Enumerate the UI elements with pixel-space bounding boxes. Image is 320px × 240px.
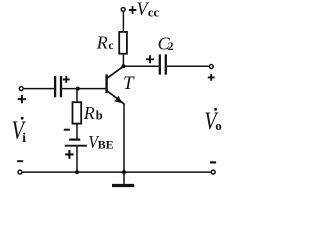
- wire Vcc to Rc: [122, 12, 124, 33]
- label plus at C2: [146, 55, 154, 63]
- svg-text:R: R: [96, 33, 108, 53]
- svg-text:cc: cc: [148, 5, 160, 19]
- wire input to C1: [24, 88, 54, 90]
- label Vo: [204, 108, 222, 135]
- terminal output bottom: [211, 170, 215, 174]
- terminal Vcc top: [121, 7, 125, 11]
- wire base junction to Rb: [76, 89, 78, 103]
- wire battery to ground rail: [76, 147, 78, 173]
- label Vi: [12, 115, 27, 145]
- wire emitter down: [123, 103, 125, 172]
- label minus at input bottom: [17, 160, 23, 162]
- resistor Rc: [119, 32, 127, 54]
- label +Vcc: [129, 0, 160, 20]
- node emitter-rail junction: [122, 170, 126, 174]
- wire C2 to output terminal: [167, 65, 209, 67]
- terminal input top: [19, 87, 23, 91]
- wire Rc to collector node: [122, 54, 124, 67]
- transistor T emitter arrow: [115, 97, 122, 103]
- node base junction: [76, 87, 80, 91]
- label VBE: [88, 132, 114, 152]
- svg-text:T: T: [123, 73, 135, 94]
- ground stub: [123, 172, 125, 184]
- resistor Rb: [73, 102, 82, 123]
- battery VBE short plate: [69, 139, 80, 141]
- svg-text:i: i: [22, 130, 26, 145]
- node collector junction: [121, 64, 125, 68]
- node battery-rail junction: [75, 170, 79, 174]
- label Rb: [83, 103, 103, 123]
- terminal input bottom: [18, 170, 22, 174]
- label plus at C1: [63, 76, 70, 83]
- label minus at battery: [64, 129, 70, 131]
- transistor T base bar: [105, 75, 107, 94]
- wire C1 to base: [62, 88, 106, 90]
- ground bar: [112, 184, 134, 187]
- label C2: [158, 34, 174, 54]
- svg-text:BE: BE: [98, 140, 114, 152]
- svg-text:b: b: [96, 108, 103, 122]
- svg-text:2: 2: [168, 41, 174, 53]
- transistor T emitter line: [107, 91, 124, 104]
- label plus at input top: [18, 95, 26, 103]
- bottom rail wire: [23, 171, 211, 173]
- label plus at battery: [65, 150, 73, 159]
- terminal output top: [209, 65, 213, 69]
- wire collector node to C2: [123, 65, 158, 67]
- wire Rb to battery: [76, 124, 78, 139]
- svg-text:R: R: [83, 103, 95, 123]
- label minus at output bottom: [210, 161, 216, 163]
- svg-text:o: o: [215, 118, 222, 133]
- transistor T collector line: [107, 66, 124, 78]
- label plus at output top: [208, 74, 215, 81]
- battery VBE long plate: [65, 145, 87, 147]
- svg-text:c: c: [108, 40, 113, 52]
- capacitor C1: [55, 76, 61, 97]
- label Rc: [96, 33, 114, 53]
- capacitor C2: [160, 54, 166, 74]
